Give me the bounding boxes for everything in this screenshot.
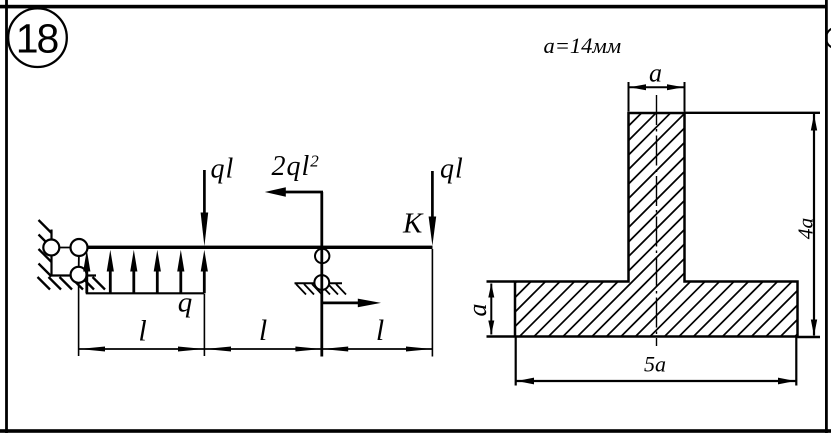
svg-text:l: l [138,315,146,348]
4a dimension top extension line [684,112,820,114]
svg-text:ql: ql [440,154,464,185]
svg-text:K: K [402,208,424,240]
5a dimension arrowheads [517,378,795,385]
frame bottom border [0,429,831,433]
svg-text:18: 18 [16,16,59,62]
pin circle at beam end [71,239,88,256]
link between wall roller and pin [52,247,80,249]
svg-text:l: l [376,314,384,347]
svg-text:5a: 5a [644,352,666,377]
4a dimension bottom extension line [798,336,821,338]
svg-text:l: l [259,314,267,347]
moment couple vertical line and center support axis [320,192,323,357]
4a dimension line [813,114,815,336]
frame top border [0,5,827,9]
moment couple bottom arrow [323,299,382,308]
ground line of left support [52,274,97,276]
frame left border [5,0,8,433]
distributed load arrows [83,250,208,293]
svg-text:2ql2: 2ql2 [272,151,320,182]
distributed load q bottom line [86,292,205,294]
wall line of left support [50,230,52,277]
T-section outline [515,113,798,337]
dimension arrowheads beam spans [79,347,432,352]
svg-text:a: a [649,59,662,88]
svg-text:a: a [463,304,492,317]
top dimension a extension lines [629,82,685,112]
svg-text:4a: 4a [794,218,818,240]
problem number circle 18 [8,8,67,67]
middle support ground line [295,282,343,284]
5a dimension line [516,380,797,382]
middle support roller circle lower [314,275,329,290]
link between pin and ground roller [78,248,80,275]
middle support ground hatching [296,284,346,295]
T-section centerline [656,95,658,346]
left dimension a extension lines [487,282,515,337]
ground hatching of left support [38,277,106,290]
force ql arrow at K [429,171,437,246]
beam [85,246,432,249]
4a dimension arrowheads [811,115,817,336]
top dimension a line [629,86,685,88]
wall roller circle [43,240,59,256]
left dimension a arrowheads [488,284,494,335]
force ql arrow left [201,170,209,246]
extension line at left support [78,283,80,356]
svg-text:ql: ql [211,154,235,185]
top dimension a arrowheads [630,84,684,90]
adjacent sheet circle arc at right edge [826,28,831,49]
wall hatching of left support [39,220,52,277]
left dimension a line [490,284,492,335]
ground roller circle [71,267,87,283]
frame right border [825,0,828,433]
svg-text:q: q [178,287,193,319]
moment couple top arrow [265,187,323,196]
5a dimension extension lines [516,338,797,386]
middle support roller circle upper [315,249,329,263]
T-section hatching [390,100,831,350]
extension line at beam right end [431,249,433,357]
svg-text:a=14мм: a=14мм [544,33,622,58]
dimension line for beam spans [79,348,433,350]
extension line below first ql force [203,294,205,356]
